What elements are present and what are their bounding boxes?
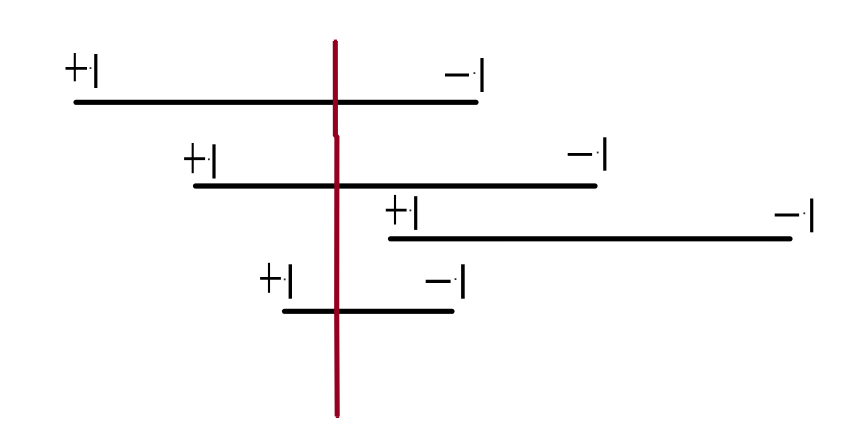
minus terminal of W4 <box>426 264 463 298</box>
plus terminal of W2 <box>184 143 214 179</box>
minus terminal of W3 <box>775 199 812 233</box>
wire W3 (third horizontal conductor) <box>391 236 791 241</box>
minus terminal of W1 <box>445 58 482 92</box>
wire W2 (second horizontal conductor) <box>196 183 596 188</box>
wire W4 (bottom short horizontal conductor) <box>285 309 453 314</box>
minus terminal of W2 <box>568 137 605 170</box>
plus terminal of W1 <box>66 53 96 88</box>
plus terminal of W3 <box>386 195 416 230</box>
vertical red line (crossing axis, drawn over the wires) <box>334 40 339 418</box>
plus terminal of W4 <box>260 263 290 299</box>
wire W1 (top horizontal conductor) <box>76 100 476 105</box>
